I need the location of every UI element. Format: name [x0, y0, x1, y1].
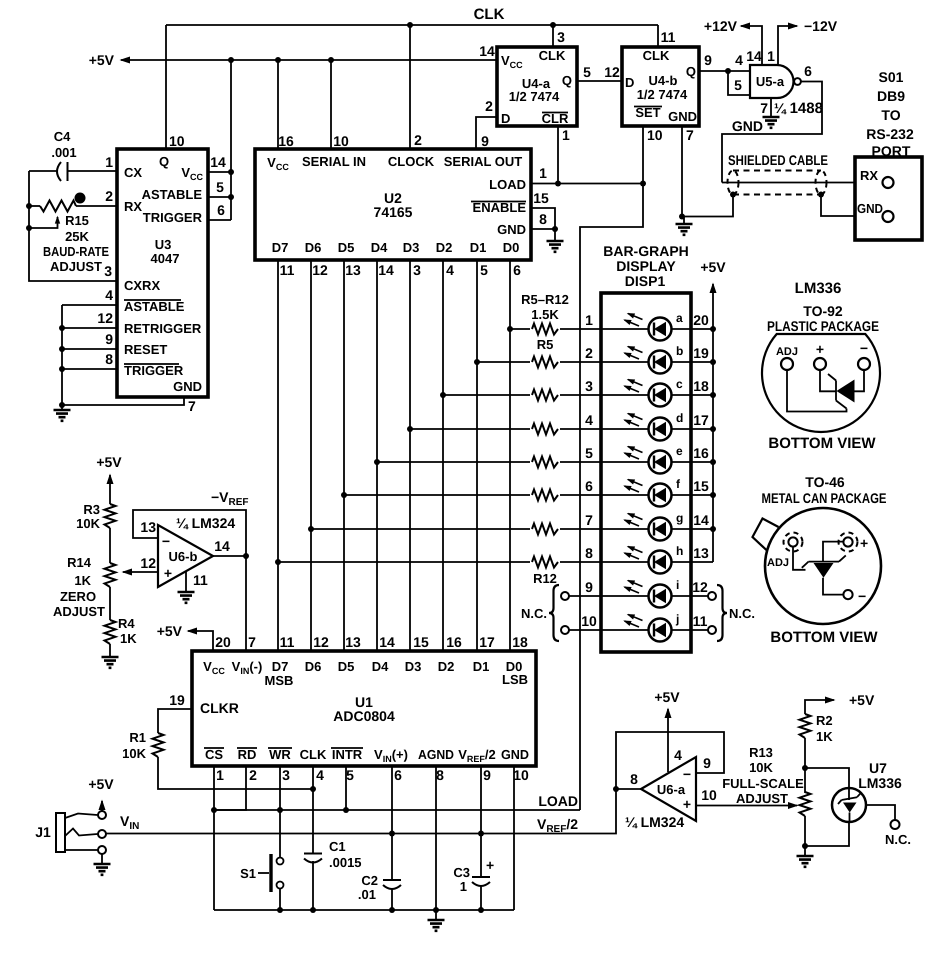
- svg-text:15: 15: [533, 190, 549, 206]
- power +5V U1 pin20: [157, 623, 231, 651]
- svg-text:16: 16: [278, 133, 294, 149]
- svg-text:3: 3: [557, 29, 565, 45]
- ground AGND: [428, 920, 445, 931]
- svg-text:1: 1: [105, 154, 113, 170]
- wire U6a feedback loop pin9: [616, 732, 724, 789]
- display DISP1 caption: [603, 243, 689, 289]
- svg-text:4047: 4047: [151, 251, 180, 266]
- node 1/4 LM324 label U6b: [176, 515, 235, 531]
- wire U1 pin1 CS down: [214, 766, 224, 910]
- wire LED row2: [474, 359, 601, 365]
- svg-text:R2: R2: [816, 713, 833, 728]
- svg-text:12: 12: [604, 64, 620, 80]
- svg-text:14: 14: [378, 262, 394, 278]
- resistor R9: [530, 454, 560, 470]
- wire LED row4: [407, 426, 601, 432]
- svg-text:R5–R12: R5–R12: [521, 292, 569, 307]
- wire LED row7: [308, 526, 601, 532]
- svg-text:a: a: [676, 311, 683, 325]
- svg-text:DB9: DB9: [877, 88, 905, 104]
- node junction vin/pin6: [389, 831, 395, 837]
- package TO-46 outline: [765, 508, 881, 624]
- IC U2 74165 body: [255, 149, 531, 260]
- wire U4b Q pin9 to U5a pin4: [699, 52, 750, 71]
- svg-text:10: 10: [581, 613, 597, 629]
- svg-text:D7: D7: [272, 240, 289, 255]
- LED b: [625, 344, 717, 374]
- svg-text:TO-46: TO-46: [805, 474, 845, 490]
- svg-text:+: +: [860, 535, 868, 551]
- node junction gnd7: [59, 402, 65, 408]
- svg-text:R5: R5: [537, 337, 554, 352]
- power +5V U6a pin4: [654, 689, 682, 772]
- node junction pin8/vref2: [613, 786, 619, 792]
- diode U7 LM336 body: [832, 760, 902, 822]
- wire LED row8: [275, 559, 601, 565]
- wire U1 pin5 INTR down: [346, 766, 354, 810]
- svg-text:9: 9: [703, 755, 711, 771]
- svg-text:D5: D5: [338, 659, 355, 674]
- wire U5a pin5 loop: [728, 71, 750, 95]
- svg-text:C3: C3: [453, 865, 470, 880]
- svg-text:+: +: [164, 565, 172, 581]
- svg-text:N.C.: N.C.: [729, 606, 755, 621]
- svg-text:13: 13: [140, 519, 156, 535]
- svg-text:D6: D6: [305, 240, 322, 255]
- capacitor C3: [453, 857, 494, 894]
- wire U4a Q pin5 to U4b D pin12: [577, 64, 622, 81]
- svg-text:8: 8: [436, 767, 444, 783]
- svg-text:PORT: PORT: [872, 143, 911, 159]
- wire TO-46 minus internal: [823, 578, 844, 595]
- wire U6a pin10 output to R13 wiper: [696, 787, 797, 806]
- svg-text:ASTABLE: ASTABLE: [124, 299, 185, 314]
- svg-text:WR: WR: [269, 747, 291, 762]
- wire U7 output to NC: [866, 805, 911, 847]
- wire shield left to gnd: [682, 195, 733, 217]
- svg-text:C4: C4: [54, 129, 71, 144]
- svg-text:U3: U3: [155, 237, 172, 252]
- svg-text:20: 20: [693, 312, 709, 328]
- node junction +5V/U2-Vcc: [275, 57, 281, 63]
- svg-text:D: D: [625, 75, 634, 90]
- wire U2 pin2 clock to CLK rail: [410, 25, 422, 149]
- resistor R5: [530, 321, 560, 337]
- svg-text:c: c: [676, 377, 683, 391]
- package TO-46 tab: [753, 519, 779, 552]
- wire D3 bus U2 pin3 to U1 pin15: [410, 260, 421, 651]
- svg-text:LM336: LM336: [795, 280, 842, 297]
- svg-text:GND: GND: [668, 109, 697, 124]
- wire LED row5: [374, 459, 601, 465]
- svg-text:+5V: +5V: [700, 259, 726, 275]
- svg-text:16: 16: [693, 445, 709, 461]
- wire U3 pin10 Q to CLK rail: [166, 25, 185, 149]
- wire U3 pin14 Vcc stub: [208, 154, 231, 172]
- node junction shield left: [730, 192, 736, 198]
- resistor R1 clkr: [122, 692, 313, 789]
- LED d: [625, 411, 717, 441]
- svg-text:74165: 74165: [374, 204, 413, 220]
- svg-text:19: 19: [693, 345, 709, 361]
- svg-text:U5-a: U5-a: [756, 74, 785, 89]
- package TO-92 outline: [762, 334, 880, 432]
- ground U3: [54, 410, 71, 421]
- svg-text:SERIAL IN: SERIAL IN: [302, 154, 366, 169]
- diode TO-92 zener triangle: [837, 380, 855, 403]
- svg-text:9: 9: [105, 331, 113, 347]
- node junction output/feedback: [243, 553, 249, 559]
- svg-text:CLKR: CLKR: [200, 700, 239, 716]
- package TO-92 plus pin: [814, 341, 826, 370]
- svg-text:12: 12: [140, 555, 156, 571]
- wire junction to U7 bottom: [805, 822, 849, 846]
- wire U2 pin15 enable stub: [531, 190, 555, 229]
- svg-text:ADC0804: ADC0804: [333, 708, 395, 724]
- svg-text:3: 3: [282, 767, 290, 783]
- svg-text:+5V: +5V: [849, 692, 875, 708]
- wire CLK top rail: [166, 24, 658, 26]
- svg-text:Q: Q: [686, 64, 696, 79]
- cable shield dashed outline: [728, 171, 827, 195]
- svg-text:ASTABLE: ASTABLE: [142, 187, 203, 202]
- node junction load/wr: [277, 807, 283, 813]
- resistor R2: [800, 713, 834, 744]
- node N.C. left brace: [521, 585, 559, 641]
- wire D7 bus U2 pin11 to U1 pin11: [278, 260, 295, 651]
- wire U3 pin4 astable stub: [62, 287, 117, 305]
- svg-text:14: 14: [479, 43, 495, 59]
- svg-text:S01: S01: [879, 69, 904, 85]
- svg-text:−: −: [683, 766, 691, 782]
- wire U5a pin1 to -12V: [767, 18, 838, 65]
- switch S1: [240, 854, 283, 910]
- svg-text:1.5K: 1.5K: [531, 307, 559, 322]
- svg-text:D7: D7: [272, 659, 289, 674]
- node junction CLK/U2-CLOCK: [407, 22, 413, 28]
- svg-text:¼ LM324: ¼ LM324: [176, 515, 235, 531]
- shielded cable label: [728, 152, 828, 168]
- package TO-46 bottom view label: [770, 629, 878, 646]
- svg-text:12: 12: [312, 262, 328, 278]
- svg-text:6: 6: [585, 478, 593, 494]
- svg-text:12: 12: [97, 310, 113, 326]
- package TO-46 minus pin: [843, 588, 866, 604]
- svg-text:11: 11: [280, 634, 295, 650]
- svg-text:8: 8: [585, 545, 593, 561]
- wire U3 pin7 GND: [62, 397, 196, 414]
- wire D0 bus U2 pin6 to U1 pin18: [510, 260, 521, 651]
- svg-text:12: 12: [313, 634, 329, 650]
- LED b row pins 2/19: [585, 345, 713, 362]
- wire U5a pin6 output to RX: [722, 63, 822, 183]
- svg-text:1K: 1K: [120, 631, 137, 646]
- svg-text:6: 6: [513, 262, 521, 278]
- gate U5-a 1488 body: [750, 65, 794, 98]
- LED f: [625, 477, 717, 507]
- node junction +5V/U3-Vcc: [228, 57, 234, 63]
- svg-text:+: +: [486, 857, 494, 873]
- wire U6b pin13 feedback loop: [133, 510, 246, 556]
- svg-text:CX: CX: [124, 165, 142, 180]
- svg-text:1K: 1K: [816, 729, 833, 744]
- resistor R7: [530, 387, 560, 403]
- wire U3 pin12 retrigger stub: [62, 310, 117, 328]
- node 1/4 LM324 label U6a: [625, 814, 684, 830]
- svg-text:+12V: +12V: [704, 18, 738, 34]
- svg-text:CXRX: CXRX: [124, 278, 160, 293]
- wire D2 bus U2 pin4 to U1 pin16: [443, 260, 454, 651]
- wire U2 pin8 gnd stub: [531, 211, 555, 241]
- svg-text:−: −: [860, 340, 868, 356]
- wire U1 pin4 CLK down: [313, 766, 324, 910]
- wire U3 pin8 trigger stub: [62, 351, 117, 369]
- gate U5-a output bubble: [794, 78, 801, 85]
- node junction pin9: [59, 346, 65, 352]
- svg-text:D0: D0: [503, 240, 520, 255]
- svg-text:FULL-SCALE: FULL-SCALE: [722, 776, 804, 791]
- node junction R15 left: [26, 203, 32, 209]
- svg-text:LOAD: LOAD: [489, 177, 526, 192]
- wire U2 pin10 serial-in to +5V: [331, 60, 349, 149]
- svg-text:d: d: [676, 411, 683, 425]
- svg-text:1: 1: [460, 879, 467, 894]
- svg-text:RX: RX: [124, 199, 142, 214]
- resistor R10: [530, 487, 560, 503]
- svg-text:LOAD: LOAD: [538, 793, 578, 809]
- svg-text:J1: J1: [35, 824, 51, 840]
- svg-text:TRIGGER: TRIGGER: [143, 210, 203, 225]
- LED f row pins 6/15: [585, 478, 713, 495]
- svg-text:SHIELDED CABLE: SHIELDED CABLE: [728, 152, 828, 168]
- LED e: [625, 444, 717, 474]
- wire TO-92 minus internal: [855, 370, 865, 391]
- svg-text:R15: R15: [65, 213, 89, 228]
- svg-text:9: 9: [481, 133, 489, 149]
- wire TO-92 ADJ internal: [787, 370, 847, 412]
- svg-text:+5V: +5V: [157, 623, 183, 639]
- svg-text:D4: D4: [371, 240, 388, 255]
- diode TO-92 zener bar: [828, 374, 847, 409]
- svg-text:15: 15: [413, 634, 429, 650]
- wire U1 pin2 RD down: [214, 766, 257, 810]
- wire U1 pin9 VREF2 down: [481, 766, 491, 910]
- package TO-92 ADJ pin: [776, 346, 798, 370]
- LED c: [625, 377, 717, 407]
- svg-text:TRIGGER: TRIGGER: [124, 363, 184, 378]
- svg-text:10: 10: [169, 133, 185, 149]
- svg-text:6: 6: [804, 63, 812, 79]
- svg-text:PLASTIC PACKAGE: PLASTIC PACKAGE: [767, 318, 879, 334]
- svg-text:5: 5: [734, 77, 742, 93]
- resistor R11: [530, 521, 560, 537]
- resistor R3: [76, 490, 115, 531]
- svg-text:¼ 1488: ¼ 1488: [774, 100, 823, 117]
- svg-text:DISPLAY: DISPLAY: [616, 258, 676, 274]
- resistor R12: [530, 554, 560, 570]
- wire U6a pin8 input: [616, 771, 641, 789]
- wire D5 bus U2 pin13 to U1 pin13: [344, 260, 361, 651]
- svg-text:7: 7: [248, 634, 256, 650]
- svg-text:ADJUST: ADJUST: [50, 259, 102, 274]
- svg-text:5: 5: [583, 64, 591, 80]
- svg-text:S1: S1: [240, 866, 256, 881]
- svg-text:ADJUST: ADJUST: [53, 604, 105, 619]
- node junction load/cs: [211, 807, 217, 813]
- wire VIN Vref2 line: [106, 789, 616, 835]
- svg-text:LSB: LSB: [502, 672, 528, 687]
- node junction pin12: [59, 325, 65, 331]
- svg-text:8: 8: [539, 211, 547, 227]
- package TO-46 plus pin: [839, 533, 869, 552]
- svg-text:CS: CS: [205, 747, 223, 762]
- wire LED row6: [341, 492, 601, 498]
- svg-text:6: 6: [217, 202, 225, 218]
- svg-text:D5: D5: [338, 240, 355, 255]
- node U4a pin14 label: [479, 43, 495, 59]
- svg-text:17: 17: [693, 412, 709, 428]
- svg-text:RD: RD: [238, 747, 257, 762]
- svg-text:g: g: [676, 511, 683, 525]
- svg-text:3: 3: [104, 263, 112, 279]
- svg-text:17: 17: [479, 634, 495, 650]
- svg-text:11: 11: [280, 262, 295, 278]
- svg-text:12: 12: [692, 579, 708, 595]
- svg-text:R13: R13: [749, 745, 773, 760]
- node CLK label: [474, 6, 505, 23]
- resistor R4: [105, 587, 138, 646]
- svg-text:BOTTOM VIEW: BOTTOM VIEW: [768, 435, 876, 452]
- svg-text:AGND: AGND: [418, 747, 454, 762]
- svg-text:ADJUST: ADJUST: [736, 791, 788, 806]
- wire TO-92 plus internal: [820, 370, 836, 391]
- LED d row pins 4/17: [585, 412, 713, 429]
- svg-text:b: b: [676, 344, 683, 358]
- node junction LOAD/U4b-SET: [640, 181, 646, 187]
- svg-text:¼ LM324: ¼ LM324: [625, 814, 684, 830]
- svg-text:+5V: +5V: [88, 776, 114, 792]
- node junction bottom/c3: [478, 907, 484, 913]
- wire bottom ground line: [214, 909, 514, 911]
- IC U1 ADC0804 body: [192, 651, 536, 766]
- svg-text:11: 11: [661, 29, 676, 45]
- display DISP1 body: [601, 293, 691, 652]
- svg-text:R3: R3: [83, 502, 100, 517]
- svg-text:U6-b: U6-b: [169, 549, 198, 564]
- ground U2 pin8: [547, 241, 564, 252]
- svg-text:2: 2: [414, 132, 422, 148]
- svg-text:14: 14: [693, 512, 709, 528]
- ground R4: [102, 644, 119, 668]
- svg-text:DISP1: DISP1: [625, 273, 666, 289]
- svg-text:D4: D4: [372, 659, 389, 674]
- LED a row pins 1/20: [585, 312, 713, 329]
- svg-text:10: 10: [701, 787, 717, 803]
- wire U3 pin6 trigger stub: [208, 202, 231, 220]
- LED h: [625, 544, 684, 574]
- svg-text:13: 13: [345, 634, 361, 650]
- wire shield right to connector GND: [821, 195, 882, 217]
- svg-text:GND: GND: [732, 118, 763, 134]
- svg-text:2: 2: [485, 98, 493, 114]
- svg-text:14: 14: [379, 634, 395, 650]
- node junction bottom/agnd: [433, 907, 439, 913]
- LED j: [625, 612, 680, 642]
- svg-text:U6-a: U6-a: [657, 782, 686, 797]
- node junction vref2/pin9: [478, 831, 484, 837]
- svg-text:TO: TO: [881, 107, 900, 123]
- svg-text:D2: D2: [436, 240, 453, 255]
- op-amp U6-a body: [641, 757, 696, 821]
- svg-text:ZERO: ZERO: [60, 589, 96, 604]
- svg-text:R1: R1: [129, 730, 146, 745]
- svg-text:10: 10: [333, 133, 349, 149]
- power +5V bargraph rail: [700, 259, 726, 562]
- svg-text:GND: GND: [501, 747, 529, 762]
- svg-text:10: 10: [647, 127, 663, 143]
- capacitor C2: [358, 873, 401, 902]
- svg-text:14: 14: [214, 538, 230, 554]
- wire R13 to ground junction: [804, 816, 806, 846]
- svg-text:+5V: +5V: [89, 52, 115, 68]
- svg-text:N.C.: N.C.: [521, 606, 547, 621]
- svg-text:RX: RX: [860, 168, 878, 183]
- IC U3 4047 body: [117, 149, 208, 397]
- svg-text:+5V: +5V: [654, 689, 680, 705]
- LED h row pins 8/13: [585, 545, 713, 562]
- svg-text:C1: C1: [329, 839, 346, 854]
- svg-text:CLK: CLK: [643, 48, 670, 63]
- LED g: [625, 511, 717, 541]
- wire -Vref to U1 pin7: [245, 556, 247, 651]
- svg-text:9: 9: [483, 767, 491, 783]
- svg-text:1: 1: [216, 767, 224, 783]
- svg-text:+5V: +5V: [96, 454, 122, 470]
- wire U3 control pins to ground: [61, 305, 63, 410]
- node junction shield right: [818, 192, 824, 198]
- svg-text:CLK: CLK: [474, 6, 505, 23]
- LED e row pins 5/16: [585, 445, 713, 462]
- ground R13: [797, 846, 814, 867]
- svg-text:RESET: RESET: [124, 342, 167, 357]
- resistor R6: [530, 354, 560, 370]
- svg-text:LM336: LM336: [858, 775, 902, 791]
- svg-text:11: 11: [693, 613, 708, 629]
- node junction R13/U7 bottom: [802, 843, 808, 849]
- svg-text:N.C.: N.C.: [885, 832, 911, 847]
- svg-text:15: 15: [693, 478, 709, 494]
- svg-text:4: 4: [105, 287, 113, 303]
- svg-text:D1: D1: [470, 240, 487, 255]
- svg-text:10K: 10K: [122, 746, 146, 761]
- wire U1 pin3 WR down: [280, 766, 290, 858]
- svg-text:Q: Q: [159, 154, 169, 169]
- wire LOAD vertical jog: [580, 184, 643, 811]
- LED a: [625, 311, 717, 341]
- svg-text:1K: 1K: [74, 573, 91, 588]
- svg-text:ADJ: ADJ: [767, 557, 789, 569]
- potentiometer R14: [53, 528, 116, 619]
- node N.C. right brace: [717, 585, 755, 641]
- wire D6 bus U2 pin12 to U1 pin12: [311, 260, 328, 651]
- svg-text:2: 2: [249, 767, 257, 783]
- svg-text:1/2 7474: 1/2 7474: [637, 87, 688, 102]
- svg-text:D1: D1: [473, 659, 490, 674]
- wire U2 pin16 Vcc to +5V: [278, 60, 294, 149]
- svg-text:Q: Q: [562, 73, 572, 88]
- wire C4/R15 left loop: [29, 171, 117, 281]
- svg-text:7: 7: [188, 398, 196, 414]
